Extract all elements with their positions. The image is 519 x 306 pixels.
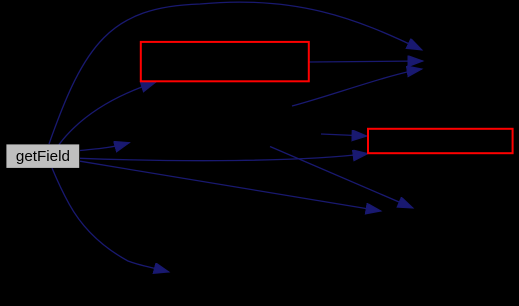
- node: getField (current node, gray): [6, 144, 79, 168]
- wire: getField -> red box 2 (enters bottom-left corner): [80, 154, 368, 161]
- wire: hidden node B -> red box 2: [321, 134, 367, 136]
- wire: getField -> hidden node A (short arrow): [80, 143, 130, 151]
- node: red box 1: [141, 42, 309, 81]
- node: red box 2: [368, 129, 513, 153]
- wire: getField -> hidden node F (bottom curve): [52, 168, 169, 272]
- wire: getField -> red box 1 (enters bottom-left): [59, 82, 156, 145]
- wire: getField -> top-right node (big arc): [49, 2, 422, 144]
- wire: red box 1 -> top-right node (horizontal): [309, 61, 423, 62]
- wire: hidden node G -> top-right node (rising): [292, 69, 422, 106]
- wire: hidden node A -> hidden node E: [270, 147, 413, 209]
- wire: getField -> hidden node D (long straight, lower): [80, 161, 381, 211]
- svg-text:getField: getField: [16, 148, 70, 165]
